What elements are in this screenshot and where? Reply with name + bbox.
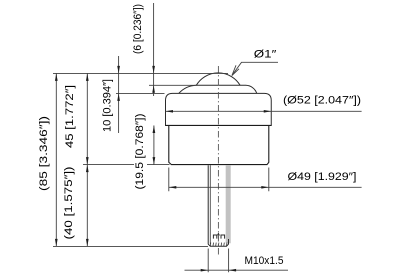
dim49 arrows [169, 186, 177, 189]
leader Ø1 [232, 62, 278, 75]
svg-text:(85 [3.346″]): (85 [3.346″]) [38, 116, 50, 191]
stud thread-end hatch ticks [210, 243, 227, 246]
dim 6 line [153, 3, 155, 96]
dim 49 line [169, 186, 362, 188]
ext line ball top [53, 72, 228, 74]
dim40 arrows [86, 165, 89, 173]
lip bottom edge [166, 124, 272, 126]
svg-text:45 [1.772″]: 45 [1.772″] [64, 85, 76, 148]
dim 85 line [55, 73, 57, 246]
svg-text:(Ø52 [2.047″]): (Ø52 [2.047″]) [283, 95, 361, 107]
dim 52 line [166, 110, 362, 112]
M10 dim line [185, 269, 289, 271]
dim10 arrows [117, 66, 120, 74]
svg-text:Ø49 [1.929″]: Ø49 [1.929″] [288, 171, 357, 183]
dim45 arrows [86, 73, 89, 81]
ball Ø1 cap [196, 73, 240, 85]
svg-text:Ø1″: Ø1″ [254, 49, 276, 61]
lip Ø52 flange [166, 93, 272, 125]
dim19.5 arrows [153, 125, 156, 133]
dim85 arrows [55, 73, 58, 81]
arrowheads [55, 66, 271, 272]
housing flat top with side fillets [179, 85, 257, 93]
dim 45/40 line [86, 73, 88, 246]
centerline [217, 66, 219, 257]
dim 49 extension verticals [169, 168, 269, 192]
dim 19.5 line [153, 125, 155, 164]
body Ø49 [169, 125, 269, 164]
svg-text:(6 [0.236″]): (6 [0.236″]) [132, 4, 144, 54]
svg-text:(19.5 [0.768″]): (19.5 [0.768″]) [134, 113, 146, 189]
dim 10 line [118, 56, 120, 133]
svg-text:(40 [1.575″]): (40 [1.575″]) [63, 166, 75, 239]
dim6 arrows [152, 66, 155, 74]
M10 arrows [201, 269, 209, 272]
stud M10 thread minor lines [209, 165, 211, 244]
ext line stud bottom [53, 245, 208, 247]
ext line shoulder [149, 84, 197, 86]
ext line body bottom [83, 164, 170, 166]
stud M10 outline [208, 165, 228, 246]
stud tiny runout marks [213, 235, 224, 239]
svg-text:M10x1.5: M10x1.5 [245, 255, 284, 267]
dim52 arrows [166, 110, 174, 113]
ext line lip top [116, 92, 165, 94]
svg-text:10 [0.394″]: 10 [0.394″] [102, 79, 114, 132]
M10 extension verticals [208, 249, 228, 273]
